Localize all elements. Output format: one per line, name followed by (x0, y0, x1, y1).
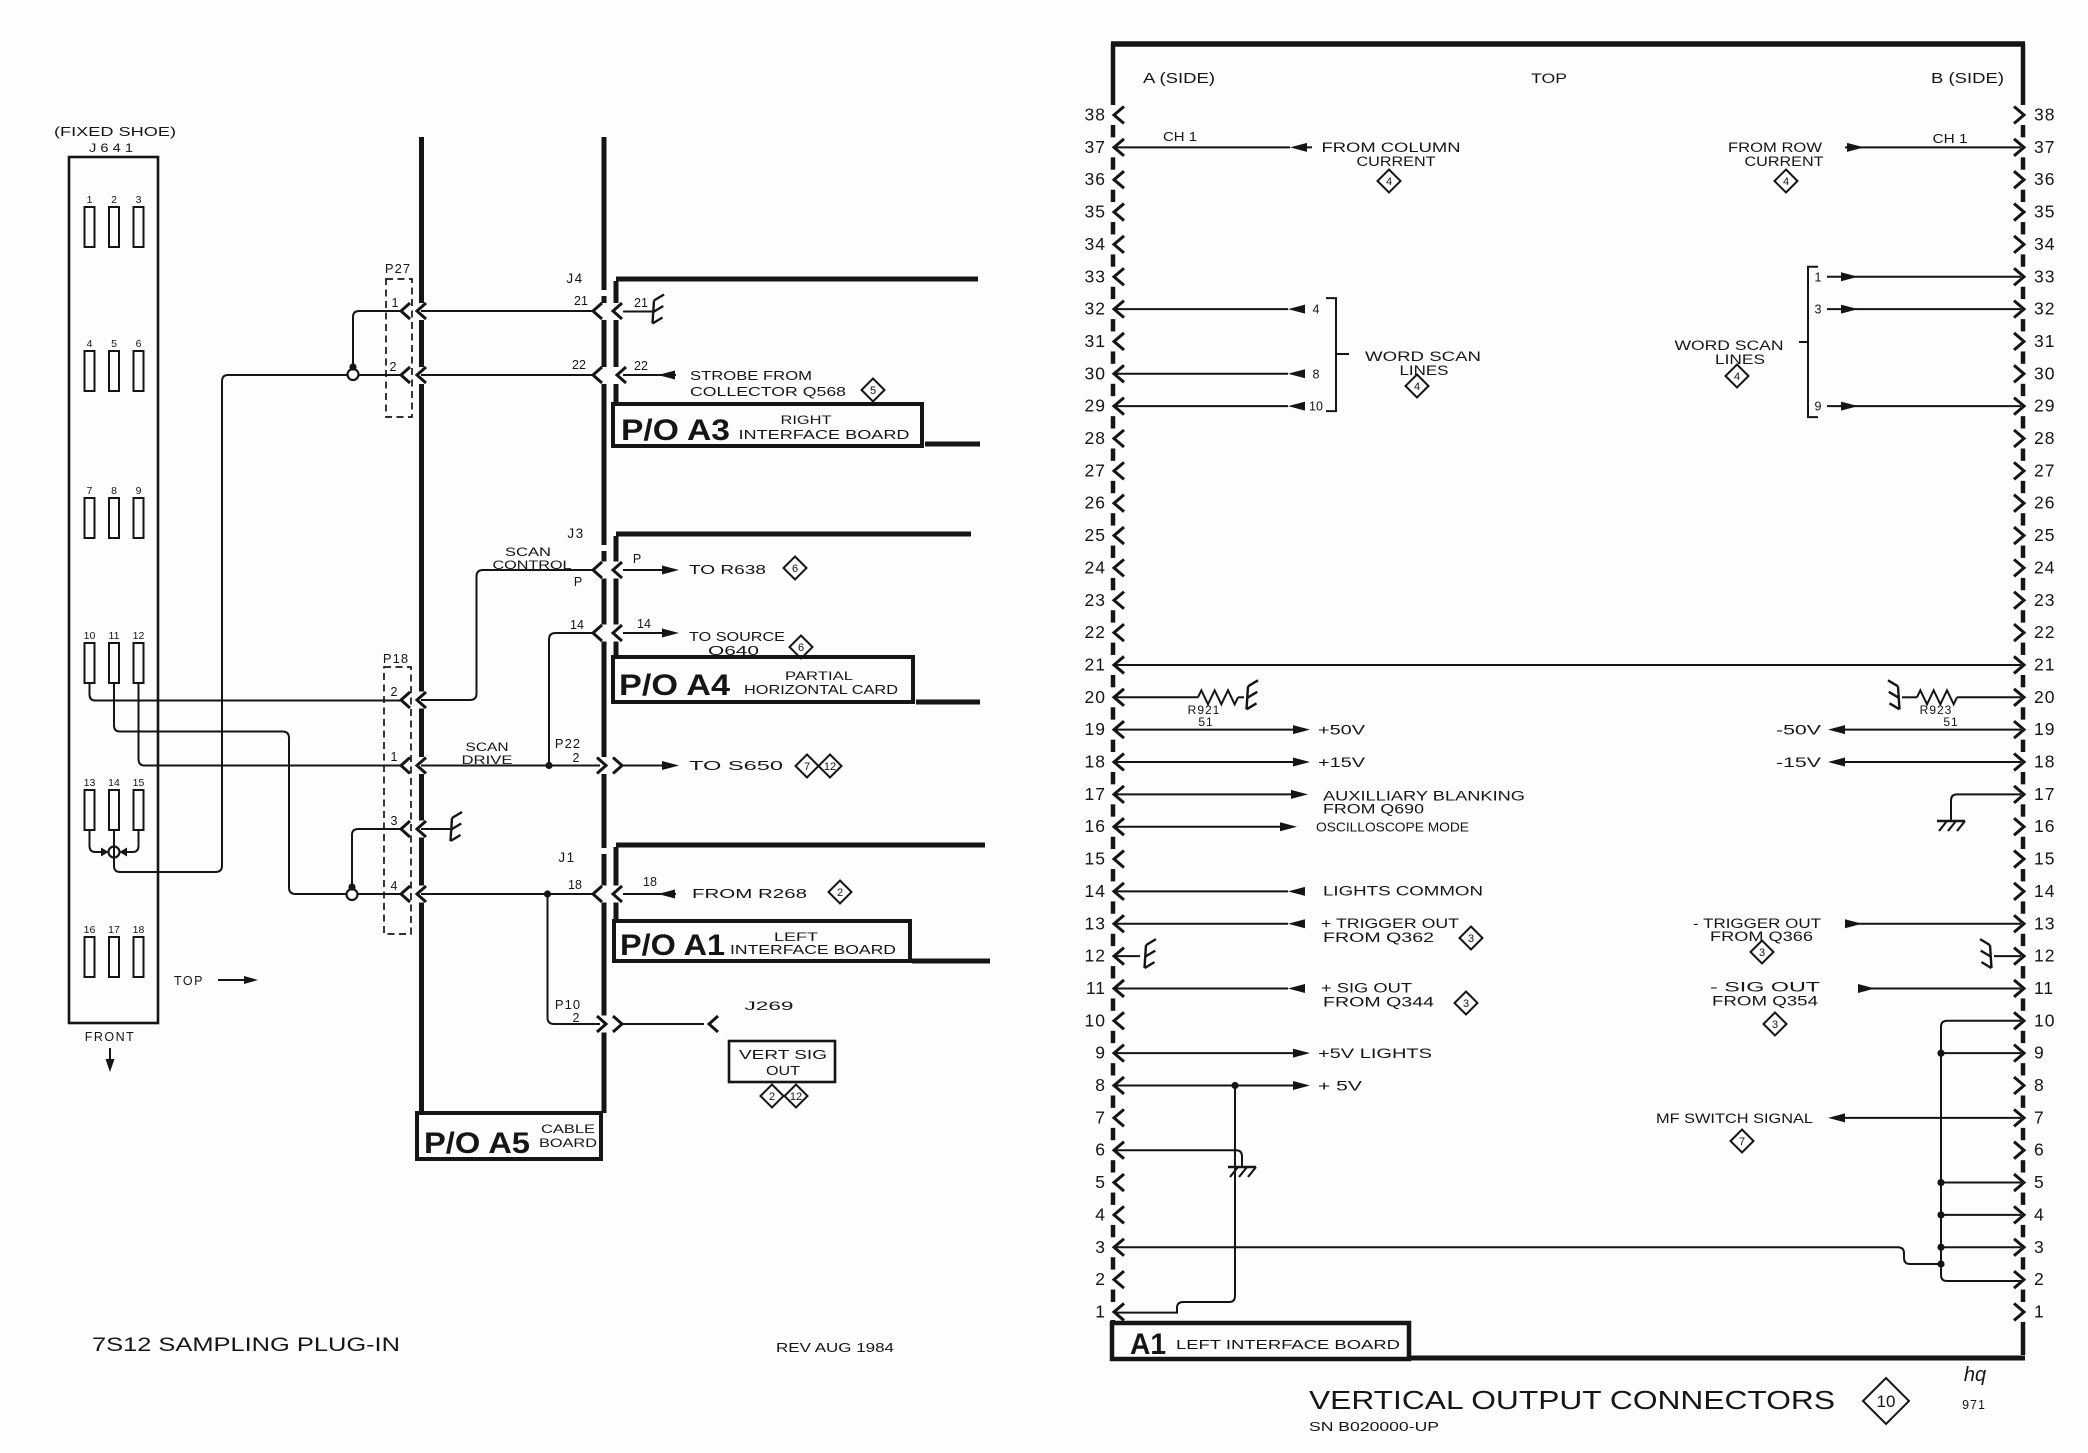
svg-text:TO SOURCE: TO SOURCE (689, 629, 785, 644)
flag diamond 5 (862, 379, 885, 402)
svg-text:18: 18 (2034, 752, 2055, 772)
label R921 51 (1188, 703, 1221, 729)
svg-text:1: 1 (1095, 1301, 1106, 1321)
svg-text:5: 5 (2034, 1172, 2045, 1192)
shield feedthrough circle on P27-2 wire (348, 369, 359, 380)
svg-text:CURRENT: CURRENT (1357, 154, 1436, 169)
svg-text:LINES: LINES (1715, 352, 1765, 367)
svg-text:7: 7 (1739, 1136, 1745, 1148)
label - TRIGGER OUT FROM Q366 (1693, 916, 1821, 944)
J641 pins 13-15 (84, 777, 145, 830)
svg-text:22: 22 (2034, 622, 2055, 642)
connector P27 label (385, 261, 411, 276)
J3-P pin label right (633, 552, 641, 566)
svg-text:J3: J3 (567, 526, 584, 541)
flag diamond 7 (MF switch) (1731, 1130, 1754, 1153)
wire J641-15 to coax node (125, 830, 139, 852)
J3 pin 14 chevrons (593, 625, 622, 641)
svg-text:27: 27 (1085, 460, 1106, 480)
wire J641-12 to P18-1 (139, 683, 402, 766)
svg-text:10: 10 (1085, 1010, 1106, 1030)
svg-text:INTERFACE BOARD: INTERFACE BOARD (739, 427, 910, 442)
svg-text:STROBE FROM: STROBE FROM (690, 368, 812, 383)
B-side connector dashed line (2021, 44, 2026, 1355)
flag diamond 6 (R638) (784, 557, 807, 580)
label R923 51 (1920, 703, 1959, 729)
wire J641-13 to coax node (90, 830, 104, 852)
svg-text:VERTICAL OUTPUT CONNECTORS: VERTICAL OUTPUT CONNECTORS (1309, 1385, 1835, 1415)
label WORD SCAN LINES (left) (1365, 349, 1481, 378)
J3 pin 14 label left (570, 618, 584, 632)
svg-text:CABLE: CABLE (541, 1122, 595, 1136)
svg-text:23: 23 (2034, 590, 2055, 610)
chassis ground at B12 (mirrored) (1980, 939, 1992, 968)
J4-21 pin label right (634, 296, 648, 310)
svg-text:4: 4 (1783, 176, 1789, 188)
svg-text:13: 13 (1085, 913, 1106, 933)
svg-text:4: 4 (1386, 176, 1392, 188)
label MF SWITCH SIGNAL (1656, 1111, 1814, 1126)
svg-text:12: 12 (824, 761, 836, 773)
svg-text:9: 9 (1815, 400, 1822, 414)
svg-text:A1: A1 (1130, 1328, 1166, 1361)
svg-text:+ SIG OUT: + SIG OUT (1321, 980, 1412, 995)
wire B11 - sig out (1858, 984, 2021, 993)
svg-text:5: 5 (1095, 1172, 1106, 1192)
wire shield circle to P27-2 (359, 374, 401, 376)
svg-text:3: 3 (1468, 933, 1474, 945)
svg-text:TOP: TOP (174, 974, 204, 988)
svg-text:P: P (633, 552, 641, 566)
wire B13 - trigger out (1845, 919, 2021, 928)
right frame top edge (1111, 41, 2025, 47)
chassis ground at J4-21 (653, 295, 665, 324)
flag diamond 4 (word scan right) (1726, 365, 1749, 388)
label CH1 (A37) (1163, 130, 1197, 144)
svg-text:16: 16 (1085, 816, 1106, 836)
svg-text:LIGHTS COMMON: LIGHTS COMMON (1323, 883, 1483, 898)
svg-text:-50V: -50V (1776, 723, 1821, 738)
wire B17 to ground (1951, 794, 2021, 820)
svg-text:29: 29 (1085, 396, 1106, 416)
svg-text:15: 15 (133, 777, 145, 789)
svg-text:4: 4 (2034, 1204, 2045, 1224)
svg-text:+ 5V: + 5V (1318, 1079, 1362, 1094)
label FRONT with arrow (85, 1030, 136, 1072)
board P/O A1 left edge (614, 847, 619, 921)
svg-text:FROM Q690: FROM Q690 (1323, 801, 1424, 816)
wire B18 -15V (1828, 758, 2021, 767)
label FROM ROW CURRENT (1728, 140, 1824, 169)
connector P22 label (555, 736, 581, 765)
svg-text:971: 971 (1962, 1398, 1986, 1412)
wire A16 oscilloscope mode (1115, 822, 1297, 831)
svg-text:P/O A1: P/O A1 (620, 929, 725, 962)
svg-text:27: 27 (2034, 460, 2055, 480)
svg-text:28: 28 (1085, 428, 1106, 448)
svg-text:22: 22 (634, 359, 648, 373)
svg-text:7S12 SAMPLING PLUG-IN: 7S12 SAMPLING PLUG-IN (92, 1335, 400, 1356)
wire B19 -50V (1828, 725, 2021, 734)
wire A12 to chassis ground (1115, 955, 1140, 957)
svg-text:12: 12 (1085, 946, 1106, 966)
board A1 label box (1112, 1323, 1409, 1359)
svg-text:9: 9 (1095, 1043, 1106, 1063)
svg-text:1: 1 (1815, 270, 1822, 284)
label STROBE FROM COLLECTOR Q568 (690, 368, 846, 399)
board P/O A3 label box (613, 404, 922, 446)
wire J4-22 stub with arrow (623, 371, 676, 380)
jumper P27-1 to shield (349, 311, 401, 371)
svg-text:32: 32 (1085, 299, 1106, 319)
svg-text:FROM COLUMN: FROM COLUMN (1322, 140, 1461, 155)
right word-scan bracket (1799, 267, 1818, 417)
svg-text:35: 35 (2034, 202, 2055, 222)
wire A9 +5V lights (1115, 1049, 1310, 1058)
svg-text:21: 21 (2034, 654, 2055, 674)
connector J269 chevron (709, 1016, 718, 1032)
svg-text:P/O A4: P/O A4 (619, 669, 730, 702)
wire B12 stub (1994, 955, 2021, 957)
chassis ground at R921 (1247, 680, 1259, 709)
svg-text:11: 11 (1086, 978, 1106, 998)
wire P18-4 to J1-18 (358, 893, 592, 895)
label TO S650 (689, 758, 783, 773)
svg-text:4: 4 (1734, 371, 1740, 383)
svg-text:13: 13 (84, 777, 96, 789)
label - SIG OUT FROM Q354 (1710, 979, 1820, 1008)
svg-text:13: 13 (2034, 913, 2055, 933)
label B (SIDE) (1931, 70, 2004, 87)
svg-text:P27: P27 (385, 261, 411, 276)
svg-text:CURRENT: CURRENT (1745, 154, 1824, 169)
svg-text:31: 31 (1085, 331, 1106, 351)
svg-text:28: 28 (2034, 428, 2055, 448)
svg-text:14: 14 (1085, 881, 1106, 901)
connector J641 (fixed shoe) title (54, 125, 176, 155)
svg-text:14: 14 (108, 777, 120, 789)
connector J3 label (567, 526, 584, 541)
flag diamond 4 (row current) (1775, 170, 1798, 193)
svg-text:TOP: TOP (1531, 71, 1567, 86)
J641 pins 1-3 (85, 194, 144, 247)
svg-text:3: 3 (1463, 998, 1469, 1010)
label A (SIDE) (1143, 70, 1215, 87)
svg-text:REV AUG 1984: REV AUG 1984 (776, 1340, 894, 1355)
label TOP with arrow (174, 974, 258, 988)
caption REV AUG 1984 (776, 1340, 894, 1355)
connector J1 label (558, 850, 575, 865)
svg-text:21: 21 (574, 294, 588, 308)
svg-text:2: 2 (111, 194, 117, 206)
J3-14 pin label right (637, 617, 651, 631)
svg-text:1: 1 (2034, 1301, 2045, 1321)
svg-text:B (SIDE): B (SIDE) (1931, 70, 2004, 87)
wire J4-21 to chassis ground (623, 311, 652, 313)
flag diamond 7 (S650) (796, 755, 819, 778)
label +15V (1318, 755, 1365, 770)
J1 pin 18 chevrons (593, 886, 622, 902)
wire B29 word scan line (1815, 400, 2021, 414)
A-side connector dashed line (1111, 44, 1116, 1322)
board P/O A4 label text (619, 669, 898, 702)
svg-text:COLLECTOR Q568: COLLECTOR Q568 (690, 384, 846, 399)
label + TRIGGER OUT FROM Q362 (1321, 916, 1459, 945)
wire P22-2 to arrow (622, 761, 679, 770)
wire B20 resistor R923 (1902, 690, 2021, 704)
svg-text:37: 37 (1085, 137, 1106, 157)
svg-text:3: 3 (1772, 1019, 1778, 1031)
wire A30 word scan line (1115, 367, 1320, 381)
J1 pin 18 label left (568, 878, 582, 892)
svg-text:J269: J269 (745, 999, 795, 1013)
svg-text:RIGHT: RIGHT (781, 413, 833, 427)
svg-text:SCAN: SCAN (505, 545, 551, 559)
svg-text:2: 2 (390, 360, 397, 374)
J1-18 pin label right (643, 875, 657, 889)
svg-text:7: 7 (87, 485, 93, 497)
flag diamond 4 (word scan left) (1406, 375, 1429, 398)
svg-text:34: 34 (1085, 234, 1106, 254)
svg-text:38: 38 (2034, 105, 2055, 125)
flag diamond 12 (vert sig out) (785, 1085, 808, 1108)
flag diamond 2 (R268) (829, 881, 852, 904)
coax shield node pins 13-14-15 (101, 847, 127, 858)
svg-text:33: 33 (2034, 266, 2055, 286)
wire J641-11 to P18-4 (114, 683, 346, 894)
J4-22 pin label right (634, 359, 648, 373)
P18 pin 1 chevrons (391, 750, 426, 774)
label TO R638 (689, 562, 766, 577)
svg-text:8: 8 (111, 485, 117, 497)
board P/O A3 top edge (616, 277, 978, 282)
svg-text:32: 32 (2034, 299, 2055, 319)
wire J1-18 junction down to P10-2 (548, 894, 601, 1024)
svg-text:33: 33 (1085, 266, 1106, 286)
A-side pin chevrons 1-38 (1114, 107, 1124, 1321)
chassis ground at R923 (mirrored) (1888, 680, 1900, 709)
label +5V (1318, 1079, 1362, 1094)
label FROM COLUMN CURRENT (1322, 140, 1461, 169)
svg-text:26: 26 (2034, 493, 2055, 513)
flag diamond 3 (Q344) (1455, 992, 1478, 1015)
svg-text:30: 30 (2034, 363, 2055, 383)
svg-text:10: 10 (1877, 1392, 1896, 1411)
label SCAN DRIVE (462, 740, 513, 767)
J4 pin 21 chevrons (574, 294, 622, 319)
svg-text:18: 18 (568, 878, 582, 892)
wire A32 word scan line (1115, 303, 1320, 317)
flag diamond 3 (Q354) (1764, 1013, 1787, 1036)
right frame bottom edge (1409, 1356, 2025, 1361)
wire +5V down to A1 (1115, 1086, 1235, 1313)
svg-text:22: 22 (1085, 622, 1106, 642)
wire B37 CH1 to row current (1845, 143, 2021, 152)
right-side bus vertical (1941, 1021, 2021, 1281)
connector P10 label (555, 997, 581, 1025)
svg-text:PARTIAL: PARTIAL (785, 669, 853, 683)
svg-text:WORD SCAN: WORD SCAN (1675, 338, 1784, 353)
svg-text:+ TRIGGER OUT: + TRIGGER OUT (1321, 916, 1459, 931)
svg-text:35: 35 (1085, 202, 1106, 222)
svg-text:12: 12 (133, 630, 145, 642)
connector J4 label (566, 271, 583, 286)
svg-text:29: 29 (2034, 396, 2055, 416)
P18 pin 3 chevrons (391, 814, 426, 837)
svg-text:4: 4 (1414, 381, 1420, 393)
svg-text:25: 25 (1085, 525, 1106, 545)
svg-text:30: 30 (1085, 363, 1106, 383)
svg-text:8: 8 (1313, 367, 1320, 381)
svg-text:24: 24 (1085, 557, 1106, 577)
board P/O A1 top edge (616, 843, 985, 848)
svg-text:+50V: +50V (1318, 723, 1365, 738)
svg-text:TO R638: TO R638 (689, 562, 766, 577)
svg-text:26: 26 (1085, 493, 1106, 513)
earth ground at B17 (1937, 821, 1965, 831)
jumper P18-3 to shield (348, 829, 401, 891)
svg-text:6: 6 (2034, 1140, 2045, 1160)
svg-text:37: 37 (2034, 137, 2055, 157)
bus junction dot A3 (1937, 1260, 1944, 1267)
J641 pins 16-18 (84, 924, 145, 977)
label LIGHTS COMMON (1323, 883, 1483, 898)
connector P27 dashed outline (386, 279, 412, 417)
svg-text:P: P (574, 575, 582, 589)
svg-text:6: 6 (792, 563, 798, 575)
svg-text:FROM Q354: FROM Q354 (1712, 993, 1819, 1008)
svg-text:11: 11 (109, 630, 120, 642)
svg-text:P10: P10 (555, 997, 581, 1012)
svg-text:17: 17 (2034, 784, 2055, 804)
wire A13 + trigger out (1115, 919, 1305, 928)
svg-text:INTERFACE BOARD: INTERFACE BOARD (730, 942, 896, 957)
board P/O A3 bottom edge (925, 442, 980, 447)
junction dot scan drive (545, 762, 552, 769)
svg-text:1: 1 (392, 296, 399, 310)
board P/O A4 bottom edge (916, 700, 980, 705)
svg-text:2: 2 (2034, 1269, 2045, 1289)
svg-text:7: 7 (1095, 1107, 1106, 1127)
P27 pin 1 chevrons (392, 296, 426, 319)
flag diamond 2 (vert sig out) (761, 1085, 784, 1108)
svg-text:2: 2 (1095, 1269, 1106, 1289)
flag diamond 12 (S650) (819, 755, 842, 778)
wire B33 word scan line (1815, 270, 2021, 284)
chassis ground at P18-3 (451, 812, 463, 841)
svg-text:6: 6 (798, 642, 804, 654)
flag diamond 3 (Q362) (1460, 927, 1483, 950)
svg-text:3: 3 (1759, 947, 1765, 959)
svg-text:6: 6 (136, 338, 142, 350)
wire P27-1 to J4-21 (421, 310, 592, 312)
svg-text:23: 23 (1085, 590, 1106, 610)
wire A37 CH1 from column current (1115, 143, 1312, 152)
svg-text:+15V: +15V (1318, 755, 1365, 770)
wire J3-14 to arrow (623, 629, 679, 638)
mark 971 (1962, 1398, 1986, 1412)
label OSCILLOSCOPE MODE (1316, 820, 1469, 835)
P18 pin 2 chevrons (391, 685, 426, 708)
svg-text:22: 22 (572, 358, 586, 372)
svg-text:SCAN: SCAN (466, 740, 509, 754)
svg-text:4: 4 (87, 338, 93, 350)
wire A19 +50V (1115, 725, 1310, 734)
svg-text:hq: hq (1964, 1364, 1986, 1386)
svg-text:16: 16 (2034, 816, 2055, 836)
bus stub to B9 (1937, 1050, 2021, 1057)
earth ground at A6 (1228, 1167, 1256, 1177)
svg-text:VERT SIG: VERT SIG (739, 1047, 827, 1062)
svg-text:A (SIDE): A (SIDE) (1143, 70, 1215, 87)
bus stub to B5 (1937, 1179, 2021, 1186)
flag diamond 6 (Q640) (790, 636, 813, 659)
svg-text:25: 25 (2034, 525, 2055, 545)
J641 pins 10-12 (84, 630, 145, 683)
svg-text:P/O A5: P/O A5 (424, 1127, 530, 1160)
svg-text:- SIG OUT: - SIG OUT (1710, 979, 1820, 994)
svg-text:FROM ROW: FROM ROW (1728, 140, 1822, 155)
board P/O A5 label box (417, 1113, 601, 1159)
wire P27-2 to J4-22 (421, 374, 592, 376)
bus stub to B4 (1937, 1211, 2021, 1218)
svg-text:2: 2 (391, 685, 398, 699)
svg-text:CH 1: CH 1 (1163, 130, 1197, 144)
P27 pin 2 chevrons (390, 360, 426, 383)
svg-text:18: 18 (133, 924, 145, 936)
label +50V (1318, 723, 1365, 738)
label SN B020000-UP (1309, 1420, 1439, 1434)
svg-text:HORIZONTAL CARD: HORIZONTAL CARD (744, 682, 898, 697)
label +5V LIGHTS (1318, 1046, 1432, 1061)
svg-text:9: 9 (2034, 1043, 2045, 1063)
svg-text:1: 1 (391, 750, 398, 764)
wire A3 long to right bus (1115, 1247, 1941, 1264)
wire A11 + sig out (1115, 984, 1305, 993)
svg-text:3: 3 (2034, 1237, 2045, 1257)
wire J3-14 down to scan drive junction (549, 633, 592, 766)
svg-text:21: 21 (1085, 654, 1106, 674)
shield feedthrough circle on P18-4 wire (347, 889, 358, 900)
svg-text:12: 12 (790, 1091, 802, 1103)
board P/O A1 label text (620, 929, 896, 962)
board P/O A4 label box (613, 657, 913, 702)
label WORD SCAN LINES (right) (1675, 338, 1784, 367)
wire B32 word scan line (1815, 303, 2021, 317)
P18 pin 4 chevrons (391, 879, 426, 902)
wire P18-2 to J3-P (scan control) (421, 570, 592, 700)
svg-text:P18: P18 (383, 651, 409, 666)
svg-text:34: 34 (2034, 234, 2055, 254)
junction dot +5V (1231, 1082, 1238, 1089)
svg-text:3: 3 (1815, 303, 1822, 317)
svg-text:SN B020000-UP: SN B020000-UP (1309, 1420, 1439, 1434)
svg-text:5: 5 (111, 338, 117, 350)
connector J269 label (745, 999, 795, 1013)
svg-text:20: 20 (1085, 687, 1106, 707)
board P/O A5 label text (424, 1122, 597, 1160)
wire P10-2 to J269 (622, 1023, 704, 1025)
svg-text:TO S650: TO S650 (689, 758, 783, 773)
mark hq (1964, 1364, 1986, 1386)
wire J641-10 to P18-2 (90, 683, 402, 701)
svg-text:5: 5 (870, 385, 876, 397)
svg-text:24: 24 (2034, 557, 2055, 577)
board A1 label text (1130, 1328, 1400, 1361)
P10 pin 2 chevrons (597, 1016, 622, 1032)
wire J3-P to arrow (623, 566, 679, 575)
svg-text:MF SWITCH SIGNAL: MF SWITCH SIGNAL (1656, 1111, 1814, 1126)
